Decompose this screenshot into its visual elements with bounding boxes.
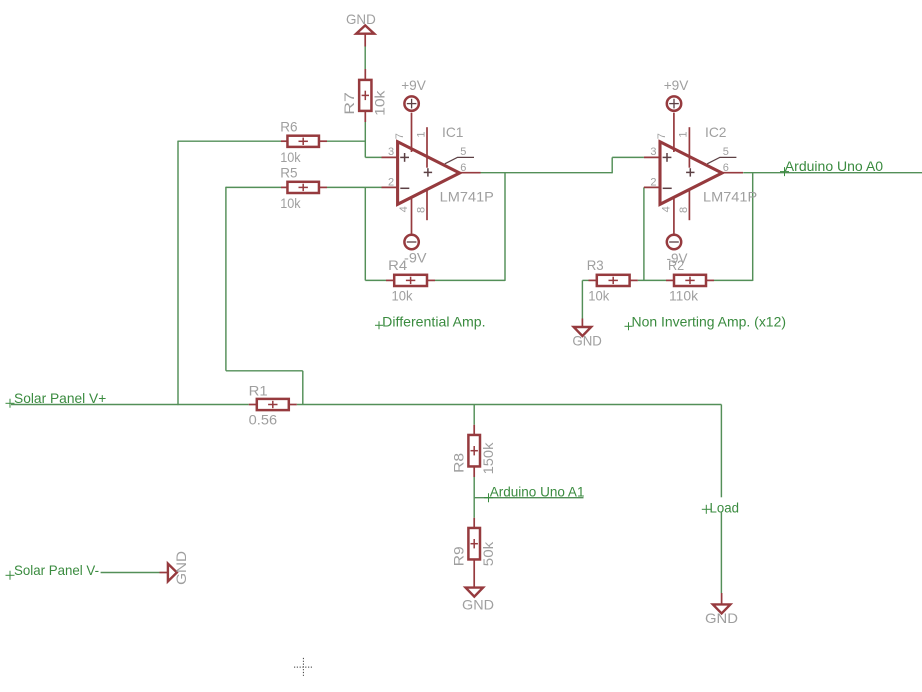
svg-text:R6: R6 (280, 119, 297, 135)
svg-text:R1: R1 (249, 383, 268, 399)
svg-text:4: 4 (660, 206, 672, 212)
svg-text:R4: R4 (388, 257, 407, 273)
svg-text:R2: R2 (668, 257, 684, 273)
svg-text:R8: R8 (450, 453, 466, 473)
svg-text:-9V: -9V (404, 250, 427, 266)
svg-text:6: 6 (460, 162, 466, 174)
svg-text:R3: R3 (587, 257, 604, 273)
svg-text:Arduino Uno A0: Arduino Uno A0 (785, 158, 883, 174)
svg-text:7: 7 (656, 133, 668, 139)
svg-text:3: 3 (650, 146, 656, 158)
svg-text:1: 1 (678, 131, 690, 137)
svg-text:GND: GND (346, 11, 376, 27)
svg-text:+9V: +9V (401, 77, 426, 93)
svg-text:8: 8 (416, 207, 428, 213)
svg-text:Non Inverting Amp. (x12): Non Inverting Amp. (x12) (632, 313, 787, 329)
svg-text:5: 5 (723, 146, 729, 158)
svg-text:IC2: IC2 (705, 124, 727, 140)
svg-text:3: 3 (388, 146, 394, 158)
svg-text:10k: 10k (280, 195, 301, 211)
svg-text:4: 4 (398, 206, 410, 212)
svg-text:R9: R9 (450, 546, 466, 566)
svg-text:1: 1 (415, 131, 427, 137)
svg-text:10k: 10k (371, 89, 387, 115)
svg-text:IC1: IC1 (442, 124, 464, 140)
svg-text:GND: GND (173, 551, 189, 585)
svg-text:Load: Load (710, 499, 740, 515)
svg-text:Arduino Uno A1: Arduino Uno A1 (490, 484, 585, 500)
svg-text:10k: 10k (392, 287, 414, 303)
svg-text:5: 5 (460, 146, 466, 158)
svg-text:GND: GND (572, 333, 602, 349)
svg-text:2: 2 (650, 177, 656, 189)
svg-text:GND: GND (462, 597, 494, 613)
svg-text:Solar Panel V-: Solar Panel V- (14, 562, 99, 578)
svg-text:Solar Panel V+: Solar Panel V+ (14, 390, 106, 406)
svg-text:+9V: +9V (664, 77, 689, 93)
svg-text:LM741P: LM741P (440, 188, 494, 204)
svg-text:2: 2 (388, 177, 394, 189)
svg-text:10k: 10k (280, 149, 301, 165)
svg-text:8: 8 (678, 207, 690, 213)
svg-text:150k: 150k (480, 442, 496, 475)
svg-text:7: 7 (394, 133, 406, 139)
svg-text:0.56: 0.56 (249, 411, 278, 427)
svg-text:50k: 50k (480, 541, 496, 566)
svg-text:R5: R5 (280, 164, 297, 180)
svg-text:6: 6 (723, 162, 729, 174)
svg-text:10k: 10k (588, 287, 610, 303)
svg-text:GND: GND (705, 610, 738, 626)
svg-text:LM741P: LM741P (703, 188, 757, 204)
svg-text:Differential Amp.: Differential Amp. (382, 313, 485, 329)
svg-text:R7: R7 (341, 92, 357, 115)
svg-text:110k: 110k (669, 287, 699, 303)
